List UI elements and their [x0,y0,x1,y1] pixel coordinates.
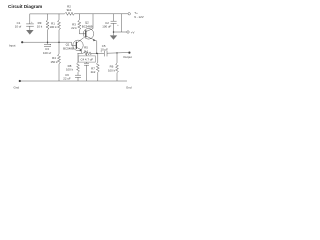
svg-text:100 uf: 100 uf [43,51,51,55]
resistor R4 [58,42,60,54]
node (C2 / +V wire) [113,31,115,33]
wire output row [97,52,104,54]
svg-text:Input: Input [9,44,16,48]
svg-text:22 k: 22 k [71,26,77,30]
wire input to Q2 base [23,42,76,45]
svg-text:10 uF: 10 uF [100,47,108,51]
svg-text:9k1: 9k1 [67,8,72,12]
ground (below C1) [26,30,33,35]
capacitor C2 [113,14,115,21]
ground (below C2) [113,32,115,35]
wire to +V [114,31,127,33]
resistor R2 (inline, top rail) [65,12,75,15]
Q2 emitter [76,47,81,53]
terminal T+ [128,13,130,15]
wire top rail left [30,13,65,15]
resistor R5 (inline) [83,52,91,55]
node (junction R9 / input wire) [47,41,49,43]
svg-text:BC548B: BC548B [63,46,74,50]
svg-text:22 uF: 22 uF [63,76,71,80]
resistor R8 [77,53,79,62]
node (junction R1-R4 / input wire) [58,41,60,43]
svg-text:100 k: 100 k [108,68,116,72]
wire bottom rail [21,80,128,82]
capacitor C1 [29,14,31,24]
svg-text:150 k: 150 k [50,60,58,64]
svg-text:Gnd: Gnd [14,85,20,89]
Q2 collector [76,38,84,44]
svg-text:9 - 12V: 9 - 12V [134,15,143,19]
terminal Gnd left [19,80,21,82]
svg-text:100 uF: 100 uF [102,25,111,29]
resistor R1 [58,14,60,20]
capacitor C5 (inline) [103,51,105,57]
svg-text:Output: Output [123,55,132,59]
svg-text:100 k: 100 k [66,68,74,72]
svg-text:BC546B: BC546B [82,24,93,28]
capacitor C3 [47,42,49,44]
resistor R6 [116,52,117,53]
wire emitter row (R5 wire) [78,52,84,54]
svg-text:100 k: 100 k [49,25,57,29]
node (emitter junction) [96,53,98,55]
svg-text:Circuit Diagram: Circuit Diagram [8,4,42,9]
svg-text:9k1: 9k1 [84,49,89,53]
terminal Output [128,52,130,54]
capacitor C6 [75,74,81,76]
svg-text:+V: +V [131,30,135,34]
svg-text:10 k: 10 k [37,25,43,29]
resistor R9 [47,14,49,20]
svg-text:2k2: 2k2 [91,70,96,74]
wire top rail right [74,13,128,15]
terminal +V [127,31,129,33]
transistor Q1 [73,40,83,50]
resistor R3 [78,14,80,20]
resistor R7 [97,53,99,62]
terminal Input [21,41,23,43]
svg-text:Gnd: Gnd [126,85,132,89]
svg-text:10 uf: 10 uf [15,25,22,29]
capacitor C4 (boxed label) [78,56,95,62]
svg-text:C4 4.7 uF: C4 4.7 uF [80,58,93,62]
wire drop from rail [121,14,123,32]
